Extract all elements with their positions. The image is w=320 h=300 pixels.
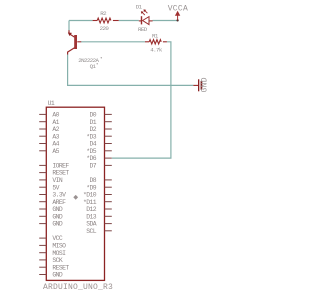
LED arrow 1 bbox=[142, 12, 145, 15]
svg-text:D2: D2 bbox=[90, 126, 97, 133]
LED D1 bbox=[139, 20, 142, 22]
svg-text:*D6: *D6 bbox=[86, 155, 96, 162]
svg-text:RESET: RESET bbox=[52, 170, 69, 177]
pin D2 bbox=[105, 128, 112, 130]
pin SCK bbox=[39, 259, 46, 261]
origin diamond bbox=[73, 195, 78, 200]
pin D12 bbox=[105, 208, 112, 210]
pin D11 bbox=[105, 201, 112, 203]
svg-text:VCCA: VCCA bbox=[168, 5, 188, 14]
svg-text:D7: D7 bbox=[90, 163, 97, 170]
svg-text:RESET: RESET bbox=[52, 264, 69, 271]
transistor base pin bbox=[77, 41, 81, 43]
svg-text:*D3: *D3 bbox=[86, 133, 96, 140]
left pins bbox=[39, 114, 46, 274]
pin D13 bbox=[105, 215, 112, 217]
wire: R1 to arduino pin D6 bbox=[112, 42, 171, 158]
pin D7 bbox=[105, 164, 112, 166]
transistor emitter pin bbox=[68, 48, 75, 55]
svg-text:IOREF: IOREF bbox=[52, 163, 69, 170]
pin A4 bbox=[39, 143, 46, 145]
wire: base to R1 bbox=[81, 41, 145, 43]
svg-text:GND: GND bbox=[52, 206, 62, 213]
pin 5V bbox=[39, 186, 46, 188]
svg-text:GND: GND bbox=[52, 213, 62, 220]
svg-text:ARDUINO_UNO_R3: ARDUINO_UNO_R3 bbox=[43, 283, 113, 292]
wire top: collector to R2 bbox=[69, 20, 93, 22]
svg-text:GND: GND bbox=[52, 221, 62, 228]
svg-text:4.7k: 4.7k bbox=[150, 47, 163, 54]
LED arrow 2 bbox=[145, 11, 148, 14]
svg-text:5V: 5V bbox=[52, 184, 59, 191]
svg-text:MISO: MISO bbox=[52, 243, 66, 250]
pin A5 bbox=[39, 150, 46, 152]
svg-text:AREF: AREF bbox=[52, 199, 66, 206]
wire: R2 to LED bbox=[119, 20, 139, 22]
pin GND3 bbox=[39, 223, 46, 225]
right pin labels bbox=[83, 112, 97, 236]
pin MOSI bbox=[39, 252, 46, 254]
pin IOREF bbox=[39, 164, 46, 166]
pin D3 bbox=[105, 135, 112, 137]
svg-text:A3: A3 bbox=[52, 133, 59, 140]
svg-text:*D5: *D5 bbox=[86, 148, 96, 155]
VCCA supply bbox=[177, 19, 179, 21]
transistor arrow bbox=[68, 33, 72, 37]
svg-text:SCK: SCK bbox=[52, 257, 62, 264]
svg-text:GND: GND bbox=[201, 77, 210, 92]
pin D8 bbox=[105, 179, 112, 181]
svg-text:VIN: VIN bbox=[52, 177, 62, 184]
transistor Q2 collector pin bbox=[69, 30, 75, 37]
svg-text:220: 220 bbox=[100, 25, 110, 32]
svg-text:A1: A1 bbox=[52, 119, 59, 126]
pin RESET2 bbox=[39, 266, 46, 268]
svg-text:D1: D1 bbox=[90, 119, 97, 126]
svg-text:SCL: SCL bbox=[86, 228, 96, 235]
svg-text:MOSI: MOSI bbox=[52, 250, 66, 257]
pin A2 bbox=[39, 128, 46, 130]
pin GND4 bbox=[39, 274, 46, 276]
pin D1 bbox=[105, 121, 112, 123]
ground bbox=[193, 84, 198, 86]
wire: collector vertical bbox=[68, 21, 70, 31]
svg-text:3.3V: 3.3V bbox=[52, 192, 66, 199]
svg-text:D8: D8 bbox=[90, 177, 97, 184]
svg-text:D12: D12 bbox=[86, 206, 96, 213]
pin VCC bbox=[39, 237, 46, 239]
pin A0 bbox=[39, 113, 46, 115]
pin A3 bbox=[39, 135, 46, 137]
svg-text:A0: A0 bbox=[52, 112, 59, 119]
svg-text:D4: D4 bbox=[90, 141, 97, 148]
svg-text:D13: D13 bbox=[86, 213, 96, 220]
svg-text:A4: A4 bbox=[52, 141, 59, 148]
pin AREF bbox=[39, 201, 46, 203]
svg-text:SDA: SDA bbox=[86, 221, 96, 228]
pin GND1 bbox=[39, 208, 46, 210]
pin SCL bbox=[105, 230, 112, 232]
svg-text:A5: A5 bbox=[52, 148, 59, 155]
pin D0 bbox=[105, 113, 112, 115]
resistor R2 bbox=[93, 20, 98, 22]
pin MISO bbox=[39, 244, 46, 246]
svg-text:*D11: *D11 bbox=[83, 199, 97, 206]
pin D5 bbox=[105, 150, 112, 152]
svg-text:*D10: *D10 bbox=[83, 192, 97, 199]
pin D6 bbox=[105, 157, 112, 159]
pin RESET bbox=[39, 172, 46, 174]
op-amp U1 arduino body bbox=[46, 107, 104, 280]
pin D10 bbox=[105, 194, 112, 196]
svg-text:U1: U1 bbox=[48, 100, 55, 107]
transistor base bar bbox=[74, 35, 77, 49]
pin 3.3V bbox=[39, 194, 46, 196]
svg-text:*D9: *D9 bbox=[86, 184, 96, 191]
right pins bbox=[105, 114, 112, 230]
pin SDA bbox=[105, 223, 112, 225]
svg-text:D0: D0 bbox=[90, 112, 97, 119]
svg-text:RED: RED bbox=[138, 26, 148, 33]
resistor R1 bbox=[145, 41, 149, 43]
wire: LED to VCCA bbox=[153, 20, 178, 22]
pin A1 bbox=[39, 121, 46, 123]
LED cathode bar bbox=[141, 16, 142, 24]
svg-text:VCC: VCC bbox=[52, 235, 62, 242]
pin D4 bbox=[105, 143, 112, 145]
svg-text:GND: GND bbox=[52, 272, 62, 279]
svg-text:A2: A2 bbox=[52, 126, 59, 133]
pin GND2 bbox=[39, 215, 46, 217]
left pin labels bbox=[52, 112, 69, 279]
wire: emitter to GND bbox=[68, 54, 194, 85]
LED triangle bbox=[143, 17, 149, 25]
pin VIN bbox=[39, 179, 46, 181]
pin D9 bbox=[105, 186, 112, 188]
